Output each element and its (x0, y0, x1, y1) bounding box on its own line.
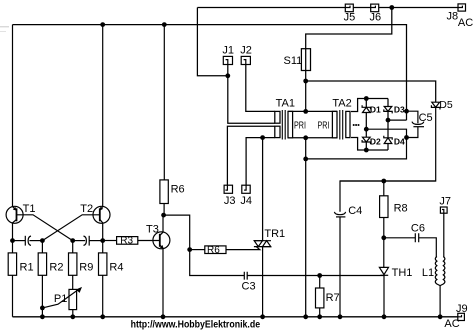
wire TR1 gate (226, 247, 260, 250)
wire D3/D4 plus output to C5 top rail (388, 119, 407, 121)
svg-text:R8: R8 (394, 203, 408, 215)
triac TR1 top bar (254, 240, 271, 242)
resistor R6 body (vertical) (160, 180, 168, 204)
svg-text:T3: T3 (146, 224, 159, 236)
svg-text:J6: J6 (370, 12, 382, 24)
wire rail A top (J5/J6/J8 net) (197, 7, 458, 9)
svg-text:L1: L1 (422, 267, 434, 279)
node junction at rail A x391.8 (389, 5, 394, 10)
connector J3 square (224, 185, 232, 193)
transistor T1 base stub and cross wire to node B (17, 215, 73, 241)
wire R1 top lead (12, 241, 14, 253)
transformer TA2 secondary winding bar (346, 111, 350, 137)
node junction R2/P1 wiper (40, 306, 45, 311)
resistor R7 body (316, 288, 324, 308)
wire R4 top lead (102, 241, 104, 253)
connector J7 square (440, 207, 447, 213)
resistor R2 body (38, 253, 46, 275)
transistor T2 circle (93, 206, 110, 223)
resistor R3 body (117, 237, 138, 245)
svg-text:C4: C4 (348, 205, 362, 217)
node junction rail R7 col (317, 314, 322, 319)
transformer TA1 upper secondary winding bar (275, 111, 280, 123)
transistor T3 circle (153, 232, 170, 249)
svg-text:TA2: TA2 (332, 98, 351, 110)
connector J9 square (458, 313, 465, 320)
svg-text:C6: C6 (411, 223, 425, 235)
capacitor C1 curved plate (28, 236, 31, 245)
transistor T1 collector lead (13, 219, 17, 240)
svg-text:D1: D1 (370, 104, 381, 114)
wire C4 bottom lead to ground rail (339, 217, 341, 317)
wire faint stub at left edge (0, 26, 9, 28)
transformer TA2 core (340, 110, 343, 140)
svg-text:R1: R1 (20, 262, 34, 274)
node junction R7 top (317, 273, 322, 278)
wire ground rail (13, 316, 458, 318)
node junction TA1 secondary to TR1 (260, 135, 265, 140)
wire R8 bottom lead (383, 218, 385, 238)
node junction C (T1 base / C2 / R9) (70, 238, 75, 243)
node junction T3 collector (161, 213, 166, 218)
svg-text:AC: AC (458, 17, 473, 29)
connector J7 wire down to L1 (443, 213, 445, 257)
node junction minus to ground column (303, 157, 308, 162)
wire minus rail down and left to ground column (306, 138, 407, 159)
wire C5 top lead (407, 111, 418, 123)
transistor T3 emitter with arrow (NPN) (160, 245, 163, 248)
resistor R1 body (8, 253, 16, 275)
svg-text:http://www.HobbyElektronik.de: http://www.HobbyElektronik.de (131, 319, 261, 330)
capacitor C5 curved plate (412, 122, 424, 125)
node junction bridge top D1 (364, 96, 369, 101)
wire C2 right lead (89, 240, 103, 242)
diode D2 (zener, cathode down) (362, 137, 370, 144)
svg-text:T2: T2 (80, 203, 93, 215)
capacitor C3 plates (244, 272, 247, 280)
wire R1 bottom lead to ground rail (12, 275, 14, 317)
node junction rail T3 col (161, 314, 166, 319)
transformer TA1 lower secondary winding bar (275, 126, 280, 137)
svg-text:PRI: PRI (294, 121, 306, 132)
node junction rail C4 col (338, 314, 343, 319)
wire bridge left branch (365, 99, 367, 151)
wire TH1 cathode to ground rail (383, 275, 385, 317)
svg-text:J1: J1 (222, 45, 234, 57)
wire bridge right branch (387, 99, 389, 151)
svg-text:R4: R4 (109, 262, 123, 274)
capacitor C5 straight plate (413, 126, 424, 128)
svg-text:J3: J3 (224, 195, 236, 207)
svg-text:C3: C3 (242, 280, 256, 292)
wire C1 right lead (29, 240, 42, 242)
inductor L1 coil right side (440, 257, 445, 286)
diode D4 (zener, cathode up) (384, 136, 392, 144)
wire C2 left lead (73, 240, 86, 242)
svg-text:R7: R7 (326, 292, 340, 304)
wire R9 top lead (72, 241, 74, 253)
node junction B (C1 / T2 base / R2) (40, 238, 45, 243)
transistor T2 emitter with arrow (PNP) (100, 207, 103, 211)
fuse S11 body (301, 49, 310, 71)
wire TA2 secondary top to bridge top (351, 99, 388, 112)
capacitor C2 straight plate (88, 236, 90, 246)
svg-text:P1: P1 (54, 293, 67, 305)
wire R2 bottom lead (41, 275, 43, 317)
connector J8 square (458, 4, 466, 11)
wire C5 bottom lead (407, 127, 418, 138)
wire L1 bottom lead (439, 286, 441, 317)
wire T1 collector column from rail B (12, 25, 14, 207)
wire T3 emitter to ground rail (162, 248, 164, 316)
wire R6 gate left lead (190, 249, 205, 251)
svg-text:D4: D4 (394, 137, 405, 147)
transistor T3 collector inside (160, 232, 163, 235)
node junction rail TR1 col (260, 314, 265, 319)
resistor R4 body (99, 253, 107, 275)
resistor R8 body (380, 196, 388, 218)
svg-text:C5: C5 (419, 112, 433, 124)
triac TR1 right triangle (263, 241, 271, 247)
wire C3 left lead from R6 node (190, 250, 245, 276)
node junction rail L1 col (438, 314, 443, 319)
capacitor C6 plates (415, 233, 418, 242)
resistor R6 gate body (205, 246, 226, 254)
transistor T2 base bar (99, 208, 101, 221)
wire R7 top lead (319, 276, 321, 289)
capacitor C4 curved plate (334, 212, 345, 215)
node junction D1/D2 minus output (364, 127, 369, 132)
connector J6 square (371, 4, 379, 12)
node junction bridge bottom D2 (364, 148, 369, 153)
wire TA1/TA2 primary top link (288, 110, 337, 112)
transistor T2 collector lead (100, 219, 103, 240)
wire primary bottom tap down to ground rail (305, 138, 307, 317)
transistor T1 emitter with arrow (PNP) (13, 207, 17, 211)
node junction rail primary col (303, 314, 308, 319)
node junction D3/D4 plus output (386, 118, 391, 123)
svg-text:TR1: TR1 (264, 228, 285, 240)
wire T3 collector lead (162, 215, 164, 232)
svg-text:R9: R9 (79, 262, 93, 274)
wire R3 left lead (103, 240, 117, 242)
node junction S11/D5 feed (303, 79, 308, 84)
svg-text:R2: R2 (49, 262, 63, 274)
svg-text:D3: D3 (394, 104, 405, 114)
svg-text:AC: AC (444, 318, 459, 330)
wire C6 left lead (384, 237, 415, 239)
transformer TA2 primary winding bar (332, 111, 337, 137)
wire TA2 secondary bottom to bridge bottom (351, 138, 388, 151)
node junction R6 gate / C3 (187, 247, 192, 252)
node junction rail R4 col (100, 314, 105, 319)
transformer TA1 core (282, 110, 285, 140)
svg-text:T1: T1 (23, 203, 36, 215)
wire rail A left drop to J1 feed (197, 8, 227, 76)
svg-text:J4: J4 (240, 195, 252, 207)
wire T3 collector node to R6 gate node (163, 215, 190, 250)
svg-text:J2: J2 (240, 45, 252, 57)
connector J2 square (241, 56, 250, 64)
thyristor TH1 cathode bar (380, 274, 388, 276)
wire R7 bottom lead (319, 308, 321, 317)
transistor T3 base bar (159, 234, 161, 247)
wire R6 bottom lead (163, 204, 165, 216)
node junction rail B at T2 column (100, 22, 105, 27)
thyristor TH1 triangle (379, 267, 388, 274)
wire R8 top lead (383, 181, 385, 196)
transistor T2 base stub and cross wire to node A (42, 215, 99, 241)
connector J5 square (345, 4, 353, 12)
transformer TA2 phase dots (353, 124, 355, 126)
wire C1 left lead (13, 240, 26, 242)
potentiometer P1 wiper arrow (42, 289, 79, 308)
svg-text:D5: D5 (439, 99, 453, 111)
wire C6 right lead to L1 top (419, 238, 436, 257)
wire R4 bottom lead to ground rail (102, 275, 104, 317)
transistor T1 base bar (16, 208, 18, 221)
node junction rail R2 col (40, 314, 45, 319)
svg-text:R6: R6 (171, 184, 185, 196)
resistor R9 body (69, 253, 77, 275)
node junction A (T1 col / C1 / R1) (10, 238, 15, 243)
potentiometer P1 body (69, 289, 77, 309)
wire through fuse S11 down to TA primary top (305, 49, 307, 112)
transformer TA1 primary winding bar (288, 111, 293, 137)
node junction rail B at R6 column (162, 22, 167, 27)
svg-text:D2: D2 (370, 137, 381, 147)
wire TH1 anode lead (383, 238, 385, 268)
node junction primary bottom tap (303, 135, 308, 140)
node junction primary top tap (303, 109, 308, 114)
inductor L1 coil left side (435, 257, 440, 286)
node junction R8/TH1/C6 (381, 235, 386, 240)
triac TR1 left triangle (254, 241, 262, 247)
node junction D (C2 / T2 collector / R4 / R3) (100, 238, 105, 243)
transistor T1 circle (6, 206, 23, 223)
wire rail A drop to S11 (306, 8, 392, 49)
wire R2 top lead (41, 241, 43, 253)
diode D3 (zener, cathode down) (384, 107, 392, 114)
node junction C5 bottom (404, 135, 409, 140)
wire RC node rail (D5 bottom across) (340, 181, 436, 212)
node junction rail P1 col (70, 314, 75, 319)
wire TA1 lower secondary upper terminal to J3 (227, 126, 274, 185)
wire T2 emitter column from rail B (102, 25, 104, 207)
wire TA1 secondary tap down to TR1 (262, 138, 264, 241)
wire gate line C3 to TH1 (247, 275, 384, 277)
wire TA1 lower secondary lower terminal to J4 (246, 138, 275, 186)
svg-text:S11: S11 (284, 55, 303, 67)
triac TR1 bottom bar (254, 246, 271, 248)
node junction rail TH1 col (382, 314, 387, 319)
wire P1 bottom lead to ground rail (72, 310, 74, 317)
diode D5 (zener, cathode down) (431, 102, 440, 109)
svg-text:TA1: TA1 (276, 98, 295, 110)
node junction R8 top (381, 179, 386, 184)
connector J4 square (242, 185, 250, 193)
svg-text:R3: R3 (120, 236, 133, 247)
capacitor C2 curved plate (84, 236, 87, 245)
node junction C5 top (404, 109, 409, 114)
wire J2 to TA1 upper secondary upper terminal (246, 65, 275, 112)
wire D1/D2 minus output to down rail (366, 129, 406, 137)
wire R9 bottom lead to P1 (72, 275, 74, 289)
capacitor C1 straight plate (24, 236, 26, 246)
svg-text:J8: J8 (447, 11, 459, 23)
wire J1 to TA1 upper secondary lower terminal (228, 65, 275, 124)
wire D5 cathode down to RC node (340, 107, 436, 181)
wire rail B (+ rail from left to right side) (13, 25, 407, 121)
capacitor C4 straight plate (336, 216, 345, 218)
svg-text:PRI: PRI (318, 121, 330, 132)
wire R6 column from rail B (163, 25, 165, 180)
svg-text:J9: J9 (456, 303, 468, 315)
node junction J1 feed (225, 73, 230, 78)
wire D5 top feed (306, 81, 436, 102)
svg-text:J7: J7 (439, 196, 451, 208)
svg-text:J5: J5 (344, 12, 356, 24)
wire TA1/TA2 primary bottom link (288, 137, 337, 139)
connector J1 square (223, 56, 232, 64)
diode D1 (zener, cathode up) (362, 105, 370, 112)
wire TR1 bottom to ground rail (262, 247, 264, 317)
svg-text:TH1: TH1 (392, 267, 413, 279)
wire R3 right lead to T3 base (138, 240, 160, 242)
svg-text:R6: R6 (207, 245, 220, 256)
